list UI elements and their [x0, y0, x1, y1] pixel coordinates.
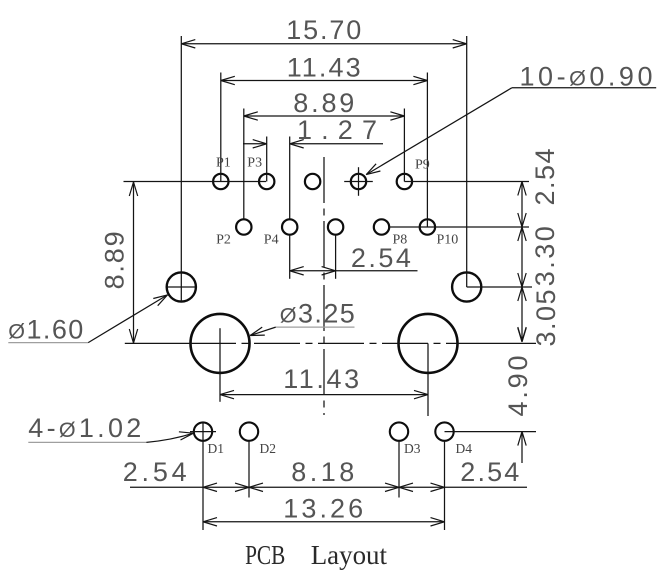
svg-text:10-Ø0.90: 10-Ø0.90	[520, 62, 653, 92]
svg-text:2.54: 2.54	[530, 149, 560, 206]
svg-text:P8: P8	[393, 233, 408, 248]
svg-text:P4: P4	[264, 233, 279, 248]
svg-text:13.26: 13.26	[283, 494, 363, 524]
svg-text:PCB: PCB	[245, 540, 285, 570]
svg-text:2.54: 2.54	[123, 457, 187, 487]
svg-text:Ø3.25: Ø3.25	[280, 299, 355, 329]
svg-text:Layout: Layout	[311, 540, 388, 570]
svg-text:D1: D1	[208, 441, 225, 456]
svg-text:8.89: 8.89	[293, 88, 354, 118]
svg-text:D3: D3	[404, 441, 421, 456]
svg-text:8.89: 8.89	[100, 231, 130, 289]
svg-text:1.27: 1.27	[297, 115, 377, 145]
svg-text:11.43: 11.43	[287, 53, 361, 83]
svg-text:D2: D2	[260, 441, 277, 456]
svg-text:3.05: 3.05	[531, 290, 561, 347]
svg-text:4-Ø1.02: 4-Ø1.02	[28, 413, 141, 443]
svg-text:D4: D4	[456, 441, 473, 456]
svg-text:15.70: 15.70	[286, 15, 361, 45]
svg-text:P9: P9	[415, 158, 430, 173]
svg-text:Ø1.60: Ø1.60	[8, 314, 83, 344]
svg-text:P3: P3	[247, 156, 262, 171]
svg-text:2.54: 2.54	[460, 457, 519, 487]
svg-text:11.43: 11.43	[283, 364, 359, 394]
svg-text:4.90: 4.90	[503, 356, 533, 417]
svg-text:P2: P2	[216, 233, 231, 248]
svg-text:8.18: 8.18	[291, 457, 354, 487]
svg-text:3.30: 3.30	[530, 226, 560, 286]
svg-text:P10: P10	[437, 233, 459, 248]
svg-text:P1: P1	[216, 156, 231, 171]
